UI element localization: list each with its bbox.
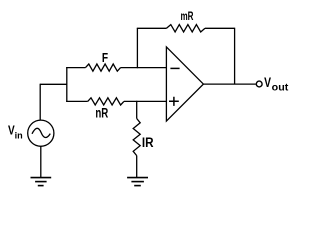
wire output — [203, 83, 256, 85]
wire mR to feedback vertical right — [205, 27, 235, 29]
resistor F — [86, 64, 121, 71]
wire input vertical down to Vin source — [39, 84, 41, 121]
wire source to ground — [40, 146, 42, 177]
resistor IR — [133, 119, 140, 156]
ground below IR — [127, 178, 148, 186]
wire nR to non-inverting input — [124, 100, 166, 102]
svg-text:F: F — [102, 50, 108, 65]
wire non-inverting node down to IR — [136, 101, 138, 119]
wire top to mR — [137, 27, 167, 29]
node branch vertical — [66, 67, 68, 102]
resistor mR — [167, 25, 206, 32]
op-amp minus sign — [170, 67, 179, 69]
wire to resistor nR — [66, 100, 88, 102]
wire feedback vertical right down to output — [234, 28, 236, 84]
wire feedback vertical left (inverting node up to mR) — [136, 28, 138, 68]
svg-text:IR: IR — [142, 135, 154, 150]
svg-text:V: V — [264, 75, 271, 90]
terminal Vout circle — [256, 81, 262, 87]
wire to resistor F — [66, 67, 85, 69]
op-amp U1 triangle — [166, 47, 203, 121]
svg-text:nR: nR — [95, 105, 108, 120]
svg-text:mR: mR — [181, 9, 194, 23]
wire IR to ground — [136, 156, 138, 178]
wire F to inverting input — [121, 67, 167, 69]
resistor nR — [88, 98, 124, 105]
source V1 circle — [28, 120, 54, 146]
wire input horizontal from Vin node to branch node — [40, 83, 67, 85]
source V1 sine symbol — [32, 128, 50, 137]
op-amp plus sign — [169, 97, 179, 106]
svg-text:out: out — [272, 83, 289, 94]
ground below Vin — [31, 178, 52, 186]
svg-text:in: in — [15, 130, 23, 141]
